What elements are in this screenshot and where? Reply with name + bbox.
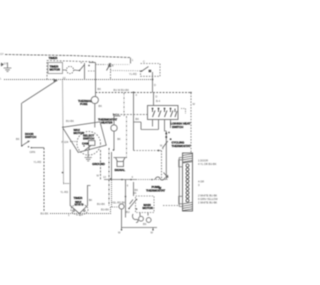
svg-text:SWITCH: SWITCH xyxy=(172,125,183,129)
svg-text:BK: BK xyxy=(98,87,102,91)
wire buzzer left xyxy=(111,152,113,180)
svg-text:1 DOOR: 1 DOOR xyxy=(198,159,208,163)
svg-text:L: L xyxy=(0,77,2,81)
centrifugal switch xyxy=(129,200,136,209)
svg-text:2 WHITE BU-BK: 2 WHITE BU-BK xyxy=(198,194,217,198)
svg-text:4 OR: 4 OR xyxy=(198,180,204,184)
timer motor TM xyxy=(48,63,63,74)
timer contact A xyxy=(80,63,85,80)
wire motor bk xyxy=(133,182,135,196)
svg-text:SIGNAL: SIGNAL xyxy=(115,168,126,172)
wire console left drop xyxy=(69,150,71,187)
heat switch contacts xyxy=(153,109,178,118)
svg-text:10: 10 xyxy=(103,175,106,179)
svg-text:BU: BU xyxy=(116,113,120,117)
wire jog to cycling stat xyxy=(141,129,159,131)
dashed ellipse xyxy=(71,204,88,215)
svg-text:1: 1 xyxy=(132,58,134,62)
thermal fuse xyxy=(91,96,98,103)
ground xyxy=(4,63,12,72)
wire diagonal to door switch xyxy=(22,81,56,103)
svg-text:YL-RD: YL-RD xyxy=(34,160,42,164)
wire to heat switch xyxy=(153,93,155,106)
timer contact D xyxy=(141,70,143,72)
wire dashdot lower xyxy=(126,116,128,158)
wire door to bottom xyxy=(43,148,45,212)
svg-text:TIMER: TIMER xyxy=(49,56,59,60)
svg-text:BU-BK: BU-BK xyxy=(66,119,74,123)
svg-text:MOTOR: MOTOR xyxy=(143,206,154,210)
svg-text:W: W xyxy=(193,102,196,106)
svg-text:W: W xyxy=(159,186,162,190)
rail tick xyxy=(62,172,64,174)
connector left flange top xyxy=(179,158,182,207)
svg-text:FUSE: FUSE xyxy=(80,102,88,106)
svg-text:YL-RD: YL-RD xyxy=(129,72,137,76)
wire dotted bottom xyxy=(50,207,111,214)
wire buzzer rail dashdot xyxy=(108,148,110,206)
connector pins xyxy=(186,164,189,202)
svg-text:B: B xyxy=(112,64,114,68)
svg-text:BK: BK xyxy=(117,137,121,141)
wire console right drop xyxy=(100,150,102,180)
cam contacts xyxy=(83,145,84,146)
wire C to D xyxy=(111,70,141,72)
timer contact B xyxy=(88,65,90,67)
svg-text:D: D xyxy=(156,95,158,99)
wire heat switch left entry xyxy=(114,114,148,116)
svg-text:BK: BK xyxy=(136,117,140,121)
svg-text:A: A xyxy=(81,61,83,65)
svg-text:3: 3 xyxy=(80,213,82,217)
svg-text:1 WHITE BU-BK: 1 WHITE BU-BK xyxy=(198,201,217,205)
svg-text:CAM: CAM xyxy=(82,142,89,146)
timer right section dashed box xyxy=(141,64,161,77)
svg-text:GY: GY xyxy=(0,52,4,56)
legend xyxy=(198,159,218,205)
motor windings xyxy=(140,213,148,217)
svg-text:4: 4 xyxy=(132,175,134,179)
console polygon xyxy=(63,122,107,153)
lower timer pentagon xyxy=(70,186,90,214)
wire step xyxy=(134,93,142,151)
timer enclosure dashed xyxy=(47,61,95,80)
svg-text:YEL-RD BK: YEL-RD BK xyxy=(112,201,126,205)
svg-text:SWITCH: SWITCH xyxy=(83,137,94,141)
svg-text:W: W xyxy=(151,231,154,235)
heat switch drops xyxy=(153,120,171,132)
buzzer xyxy=(114,158,128,162)
wire contact D down xyxy=(152,72,154,93)
timer inner dashes xyxy=(88,65,104,72)
svg-text:BU-BK: BU-BK xyxy=(97,202,105,206)
svg-text:BU-BK: BU-BK xyxy=(41,212,49,216)
junction on bus xyxy=(133,92,135,94)
svg-text:BU W BU-BK: BU W BU-BK xyxy=(114,88,130,92)
wire G dashed top line xyxy=(5,55,131,58)
svg-text:HEATER: HEATER xyxy=(101,121,113,125)
svg-text:BK: BK xyxy=(143,222,147,226)
svg-text:F-104: F-104 xyxy=(62,140,69,144)
wire drop from G line xyxy=(130,58,132,64)
cam dashed circle xyxy=(77,132,101,156)
svg-text:4 YL OR BU-BK: 4 YL OR BU-BK xyxy=(198,162,217,166)
wire dotted left rail xyxy=(63,80,71,184)
svg-text:3: 3 xyxy=(198,183,200,187)
motor left terminals xyxy=(136,199,138,201)
ground symbol console xyxy=(85,151,92,162)
svg-text:C: C xyxy=(143,60,145,64)
wire dotted inner rail xyxy=(111,180,113,207)
svg-text:MOTOR: MOTOR xyxy=(50,68,61,72)
svg-text:B-4: B-4 xyxy=(156,99,161,103)
svg-text:BK: BK xyxy=(89,198,93,202)
pivot circles xyxy=(73,210,75,212)
heat switch box xyxy=(148,106,179,120)
wire bus dashed mid xyxy=(96,92,192,94)
svg-text:1: 1 xyxy=(68,213,70,217)
winding curl xyxy=(132,214,138,223)
svg-text:6: 6 xyxy=(127,184,129,188)
svg-text:THERMOSTAT: THERMOSTAT xyxy=(146,189,165,193)
junction bus right xyxy=(190,92,192,94)
svg-text:4: 4 xyxy=(136,93,138,97)
thermistor curl xyxy=(155,177,165,180)
wire thermal fuse drop xyxy=(95,63,97,97)
svg-text:BU-BK: BU-BK xyxy=(101,208,109,212)
cam box xyxy=(89,141,95,146)
svg-text:BK: BK xyxy=(135,188,139,192)
svg-text:GROUND: GROUND xyxy=(92,162,105,166)
stub right of box xyxy=(181,109,186,114)
arrow junction xyxy=(54,79,58,82)
svg-text:D: D xyxy=(154,83,156,87)
svg-text:10: 10 xyxy=(63,76,66,80)
wire dotted cam xyxy=(70,141,78,143)
main motor box dashed xyxy=(136,196,155,213)
svg-text:GY: GY xyxy=(4,62,8,66)
svg-text:6 GRN-YELLOW: 6 GRN-YELLOW xyxy=(198,197,218,201)
connector block xyxy=(183,153,193,211)
wire motor bottom bus xyxy=(122,209,158,230)
svg-text:BK: BK xyxy=(99,104,103,108)
wire buzzer right dashdot xyxy=(123,93,125,116)
svg-text:THERMOSTAT: THERMOSTAT xyxy=(172,144,191,148)
svg-text:W: W xyxy=(97,174,100,178)
connector left flange bottom xyxy=(179,196,183,204)
svg-text:SWITCH: SWITCH xyxy=(25,135,36,139)
power cord plug xyxy=(1,63,4,66)
wire L dotted line xyxy=(4,79,153,81)
svg-text:W: W xyxy=(118,231,121,235)
svg-text:GRN: GRN xyxy=(30,150,36,154)
connector dashed rail xyxy=(163,205,179,207)
timer contact C xyxy=(110,63,112,80)
wire motor feed vertical xyxy=(125,180,127,218)
cycling thermostat contact xyxy=(165,131,167,180)
wire bottom bus xyxy=(104,179,136,181)
svg-text:BU: BU xyxy=(126,210,130,214)
svg-text:YL-RD: YL-RD xyxy=(60,190,68,194)
wire to connector W xyxy=(190,93,192,154)
connector bottom hatch xyxy=(183,202,193,210)
wire TM to contact A xyxy=(63,69,80,72)
arrow to connector xyxy=(164,173,169,178)
timer cam circle xyxy=(66,66,73,73)
svg-text:BK: BK xyxy=(16,137,20,141)
wire dashed loop xyxy=(134,151,162,180)
connector top hatch xyxy=(183,153,193,163)
